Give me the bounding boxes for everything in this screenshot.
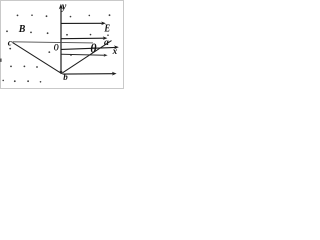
svg-text:O: O [54, 43, 59, 53]
field dots row 5 [2, 80, 41, 83]
middle line arrowhead [104, 54, 108, 57]
vector a line [62, 37, 105, 40]
svg-text:x: x [112, 47, 118, 57]
arrowhead at b on vertical line [59, 71, 62, 75]
vector a arrowhead [103, 36, 108, 40]
line from c through O [12, 42, 93, 43]
x-axis [62, 47, 116, 49]
diagonal from b up-right [61, 41, 111, 74]
field dots row 2 [6, 30, 109, 36]
background [0, 0, 124, 89]
y-axis arrowhead [59, 4, 63, 10]
bottom arrowhead [112, 72, 117, 76]
y-axis [60, 6, 62, 74]
diagonal c to b [12, 42, 61, 73]
svg-text:θ: θ [90, 42, 97, 56]
svg-text:b: b [63, 72, 68, 82]
middle horizontal line below x-axis [62, 53, 105, 56]
frame border [1, 1, 124, 89]
field dots row 3 [9, 48, 72, 56]
x-axis arrowhead [114, 45, 119, 49]
vector E arrowhead [101, 22, 106, 26]
bottom arrow from b [63, 73, 114, 75]
vector E line [62, 22, 104, 24]
field dots row 1 [17, 14, 111, 17]
left edge mark [0, 59, 2, 62]
svg-text:E: E [104, 24, 111, 35]
field dots row 4 [10, 66, 38, 68]
svg-text:B: B [18, 23, 25, 35]
svg-text:y: y [61, 1, 67, 12]
